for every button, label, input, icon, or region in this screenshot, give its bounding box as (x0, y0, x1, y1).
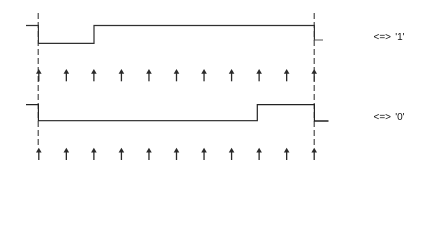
svg-text:<=> '1': <=> '1' (374, 32, 405, 43)
svg-text:<=> '0': <=> '0' (374, 112, 405, 123)
